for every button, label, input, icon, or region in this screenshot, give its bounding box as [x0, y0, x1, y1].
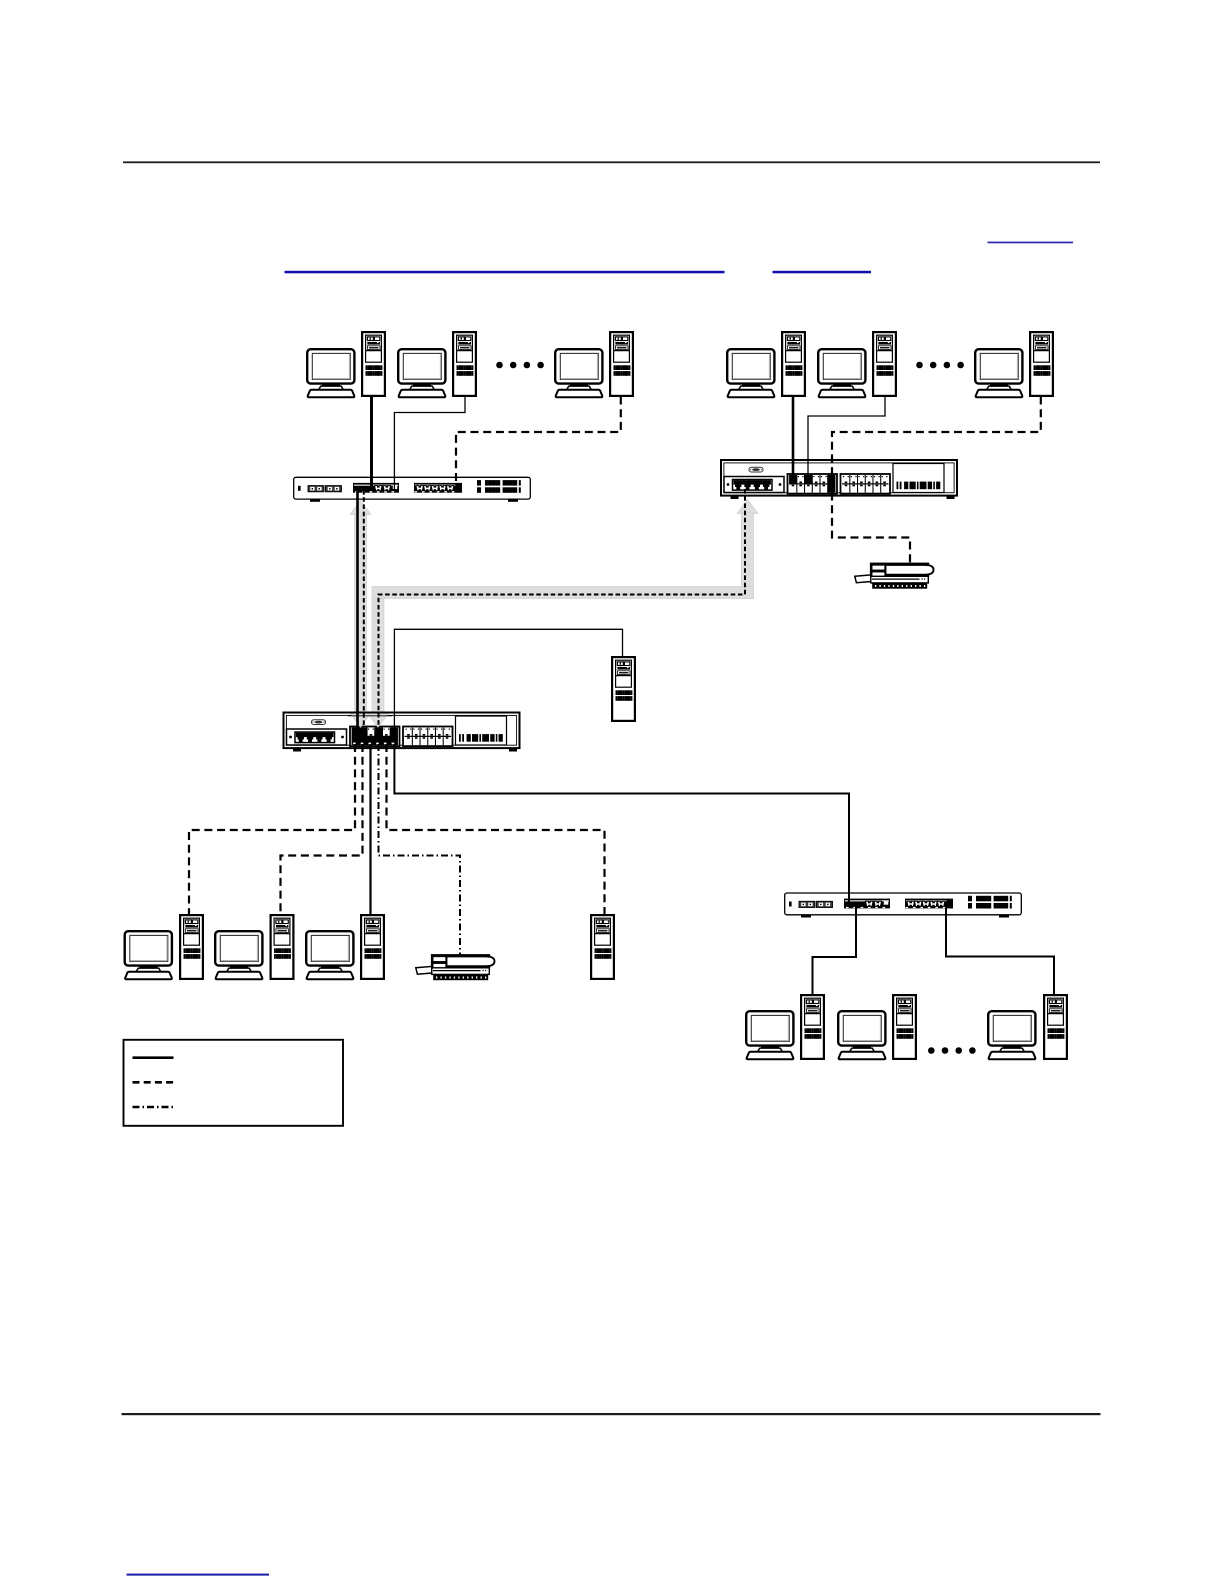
wire switch A2 to PC1 bottom-right: [813, 906, 857, 995]
header rule: [123, 161, 1100, 163]
wire central switch to switch A2: [394, 744, 849, 902]
footer rule: [122, 1413, 1101, 1415]
printer top-right: [855, 564, 934, 589]
switch A2 bottom-right: [785, 893, 1022, 918]
legend dash-dot line sample: [133, 1106, 174, 1109]
tower PC3 top-left: [610, 332, 633, 396]
computer PC1 bottom-right: [746, 1011, 793, 1059]
wire PC2 to switch B1: [808, 397, 885, 481]
solid wire central switch to PC3 bottom-left: [369, 744, 371, 914]
switch B2 central: [284, 713, 520, 752]
tower PC2 top-right: [873, 332, 896, 396]
gray uplink arrow between right switch and central switch: [368, 500, 759, 728]
link underline top right: [988, 242, 1074, 244]
dashed wire central switch to lone tower: [387, 744, 605, 914]
wire PC2 to switch A1: [394, 397, 465, 490]
wire switch A2 to PC3 bottom-right: [946, 906, 1054, 995]
ellipsis dots top-right: [916, 362, 964, 369]
computer PC3 top-right: [975, 349, 1022, 397]
tower PC3 bottom-left: [361, 915, 384, 979]
switch A1 top-left: [294, 477, 531, 502]
dashed wire PC3 through switch B1 to printer: [832, 397, 1041, 564]
computer PC2 top-left: [398, 349, 445, 397]
computer PC2 bottom-left: [215, 931, 262, 979]
dashed uplink wire left switch to central switch: [363, 490, 365, 731]
dashed wire central switch to PC2 bottom-left: [281, 744, 363, 914]
tower PC1 top-right: [782, 332, 805, 396]
solid uplink wire left switch to central switch: [356, 489, 359, 731]
wire PC1 to switch B1: [792, 397, 795, 481]
tower PC2 bottom-left: [271, 915, 294, 979]
tower PC3 top-right: [1030, 332, 1053, 396]
computer PC3 bottom-right: [988, 1011, 1035, 1059]
dashed wire central switch to PC1 bottom-left: [189, 744, 355, 914]
tower PC2 top-left: [453, 332, 476, 396]
computer PC3 bottom-left: [306, 931, 353, 979]
legend solid line sample: [133, 1056, 174, 1059]
link underline title left: [285, 271, 725, 274]
ellipsis dots bottom-right: [928, 1047, 976, 1054]
tower PC1 bottom-left: [180, 915, 203, 979]
computer PC3 top-left: [555, 349, 602, 397]
legend box: [124, 1040, 344, 1126]
wire central switch to server: [394, 629, 622, 731]
dash-dot wire central switch to printer bottom-left: [379, 744, 461, 955]
dashed wire PC3 to switch A1: [456, 397, 621, 488]
printer bottom-left: [416, 955, 495, 980]
computer PC1 bottom-left: [125, 931, 172, 979]
tower PC2 bottom-right: [893, 995, 916, 1059]
gray uplink arrow between left switch and central switch: [350, 501, 371, 728]
tower PC3 bottom-right: [1044, 995, 1067, 1059]
wire PC1 to switch A1: [370, 397, 373, 491]
computer PC2 bottom-right: [838, 1011, 885, 1059]
link underline title right: [773, 271, 872, 274]
computer PC1 top-left: [307, 349, 354, 397]
tower PC1 bottom-right: [801, 995, 824, 1059]
server tower: [612, 657, 635, 721]
central switch top border over gray: [348, 713, 392, 716]
switch B1 top-right: [721, 460, 957, 499]
computer PC2 top-right: [818, 349, 865, 397]
computer PC1 top-right: [727, 349, 774, 397]
footer link underline: [127, 1574, 270, 1576]
tower PC1 top-left: [362, 332, 385, 396]
dashed uplink wire right switch to central switch: [379, 489, 746, 731]
lone tower bottom: [591, 915, 614, 979]
legend dashed line sample: [133, 1081, 174, 1084]
ellipsis dots top-left: [496, 362, 544, 369]
